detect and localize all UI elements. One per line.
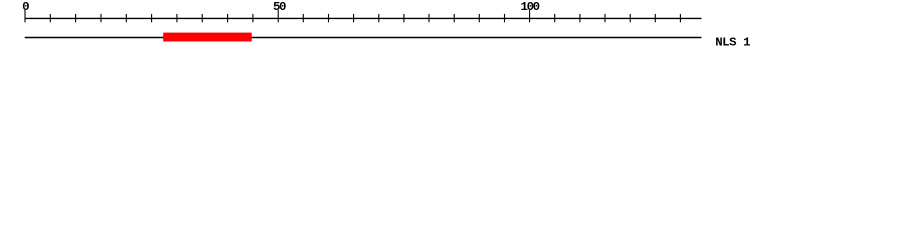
minor tick at residue 45 (x=252.9) <box>252 14 254 22</box>
minor tick at residue 75 (x=403.9) <box>403 14 405 22</box>
minor tick at residue 85 (x=454.2) <box>453 14 455 22</box>
minor tick at residue 10 (x=75.6) <box>75 14 77 22</box>
svg-text:0: 0 <box>22 0 29 14</box>
minor tick at residue 35 (x=202.2) <box>201 14 203 22</box>
ruler axis line <box>25 17 702 19</box>
major tick at residue 100 (x=529.6) <box>529 10 531 22</box>
minor tick at residue 65 (x=353.6) <box>353 14 355 22</box>
minor tick at residue 110 (x=579.9) <box>579 14 581 22</box>
minor tick at residue 15 (x=101.0) <box>100 14 102 22</box>
minor tick at residue 130 (x=680.4) <box>679 14 681 22</box>
minor tick at residue 105 (x=554.7) <box>554 14 556 22</box>
major tick at residue 50 (x=278.2) <box>277 10 279 22</box>
minor tick at residue 20 (x=126.3) <box>125 14 127 22</box>
minor tick at residue 95 (x=504.5) <box>504 14 506 22</box>
minor tick at residue 30 (x=176.9) <box>176 14 178 22</box>
minor tick at residue 60 (x=328.5) <box>328 14 330 22</box>
svg-text:100: 100 <box>521 0 540 14</box>
minor tick at residue 5 (x=50.3) <box>49 14 51 22</box>
minor tick at residue 40 (x=227.6) <box>227 14 229 22</box>
background <box>0 0 900 58</box>
minor tick at residue 120 (x=630.2) <box>629 14 631 22</box>
sequence backbone line <box>25 37 702 39</box>
feature box NLS 1 (red) <box>163 33 252 42</box>
svg-text:50: 50 <box>273 0 286 14</box>
major tick at residue 0 (x=25.0) <box>24 10 26 22</box>
minor tick at residue 25 (x=151.6) <box>151 14 153 22</box>
minor tick at residue 125 (x=655.3) <box>654 14 656 22</box>
minor tick at residue 70 (x=378.8) <box>378 14 380 22</box>
minor tick at residue 55 (x=303.3) <box>302 14 304 22</box>
svg-text:NLS 1: NLS 1 <box>715 35 750 49</box>
minor tick at residue 80 (x=429.0) <box>428 14 430 22</box>
minor tick at residue 90 (x=479.3) <box>478 14 480 22</box>
minor tick at residue 115 (x=605.0) <box>604 14 606 22</box>
